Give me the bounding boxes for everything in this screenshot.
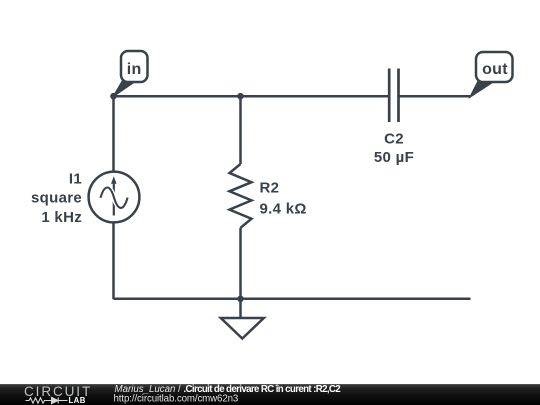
node in (junction dot) [110, 93, 117, 100]
ground [221, 299, 264, 339]
wire top horizontal (C2 right plate to out) [400, 95, 471, 98]
wire top horizontal (in node to C2 left plate) [114, 95, 389, 98]
svg-text:50 µF: 50 µF [374, 149, 414, 166]
C2 value labels [374, 131, 414, 167]
capacitor C2 [389, 69, 398, 123]
CircuitLab logo wordmark [24, 384, 91, 405]
svg-text:I1: I1 [69, 171, 82, 188]
svg-text:out: out [482, 61, 508, 78]
svg-text:R2: R2 [260, 180, 280, 197]
flag in [114, 51, 148, 96]
I1 value labels [31, 171, 82, 227]
R2 value labels [260, 180, 307, 218]
flag out [470, 52, 512, 97]
wire left vertical upper (in node to I1 top) [112, 96, 115, 172]
resistor R2 [230, 96, 252, 299]
svg-text:C2: C2 [384, 131, 404, 148]
svg-text:LAB: LAB [69, 396, 86, 405]
svg-text:http://circuitlab.com/cmw62n3: http://circuitlab.com/cmw62n3 [114, 394, 239, 405]
svg-text:1 kHz: 1 kHz [41, 209, 82, 226]
current source I1 [89, 172, 140, 223]
svg-text:square: square [31, 190, 82, 207]
CircuitLab logo resistor-diode squiggle [26, 397, 68, 403]
svg-text:9.4 kΩ: 9.4 kΩ [260, 201, 307, 218]
node R2 bottom / ground (junction dot) [237, 296, 244, 303]
svg-text:in: in [127, 61, 142, 78]
wire left vertical lower (I1 bottom to bottom rail) [112, 222, 115, 299]
footer bar [0, 384, 540, 405]
wire bottom horizontal rail [114, 298, 471, 301]
node R2 top (junction dot) [237, 93, 244, 100]
